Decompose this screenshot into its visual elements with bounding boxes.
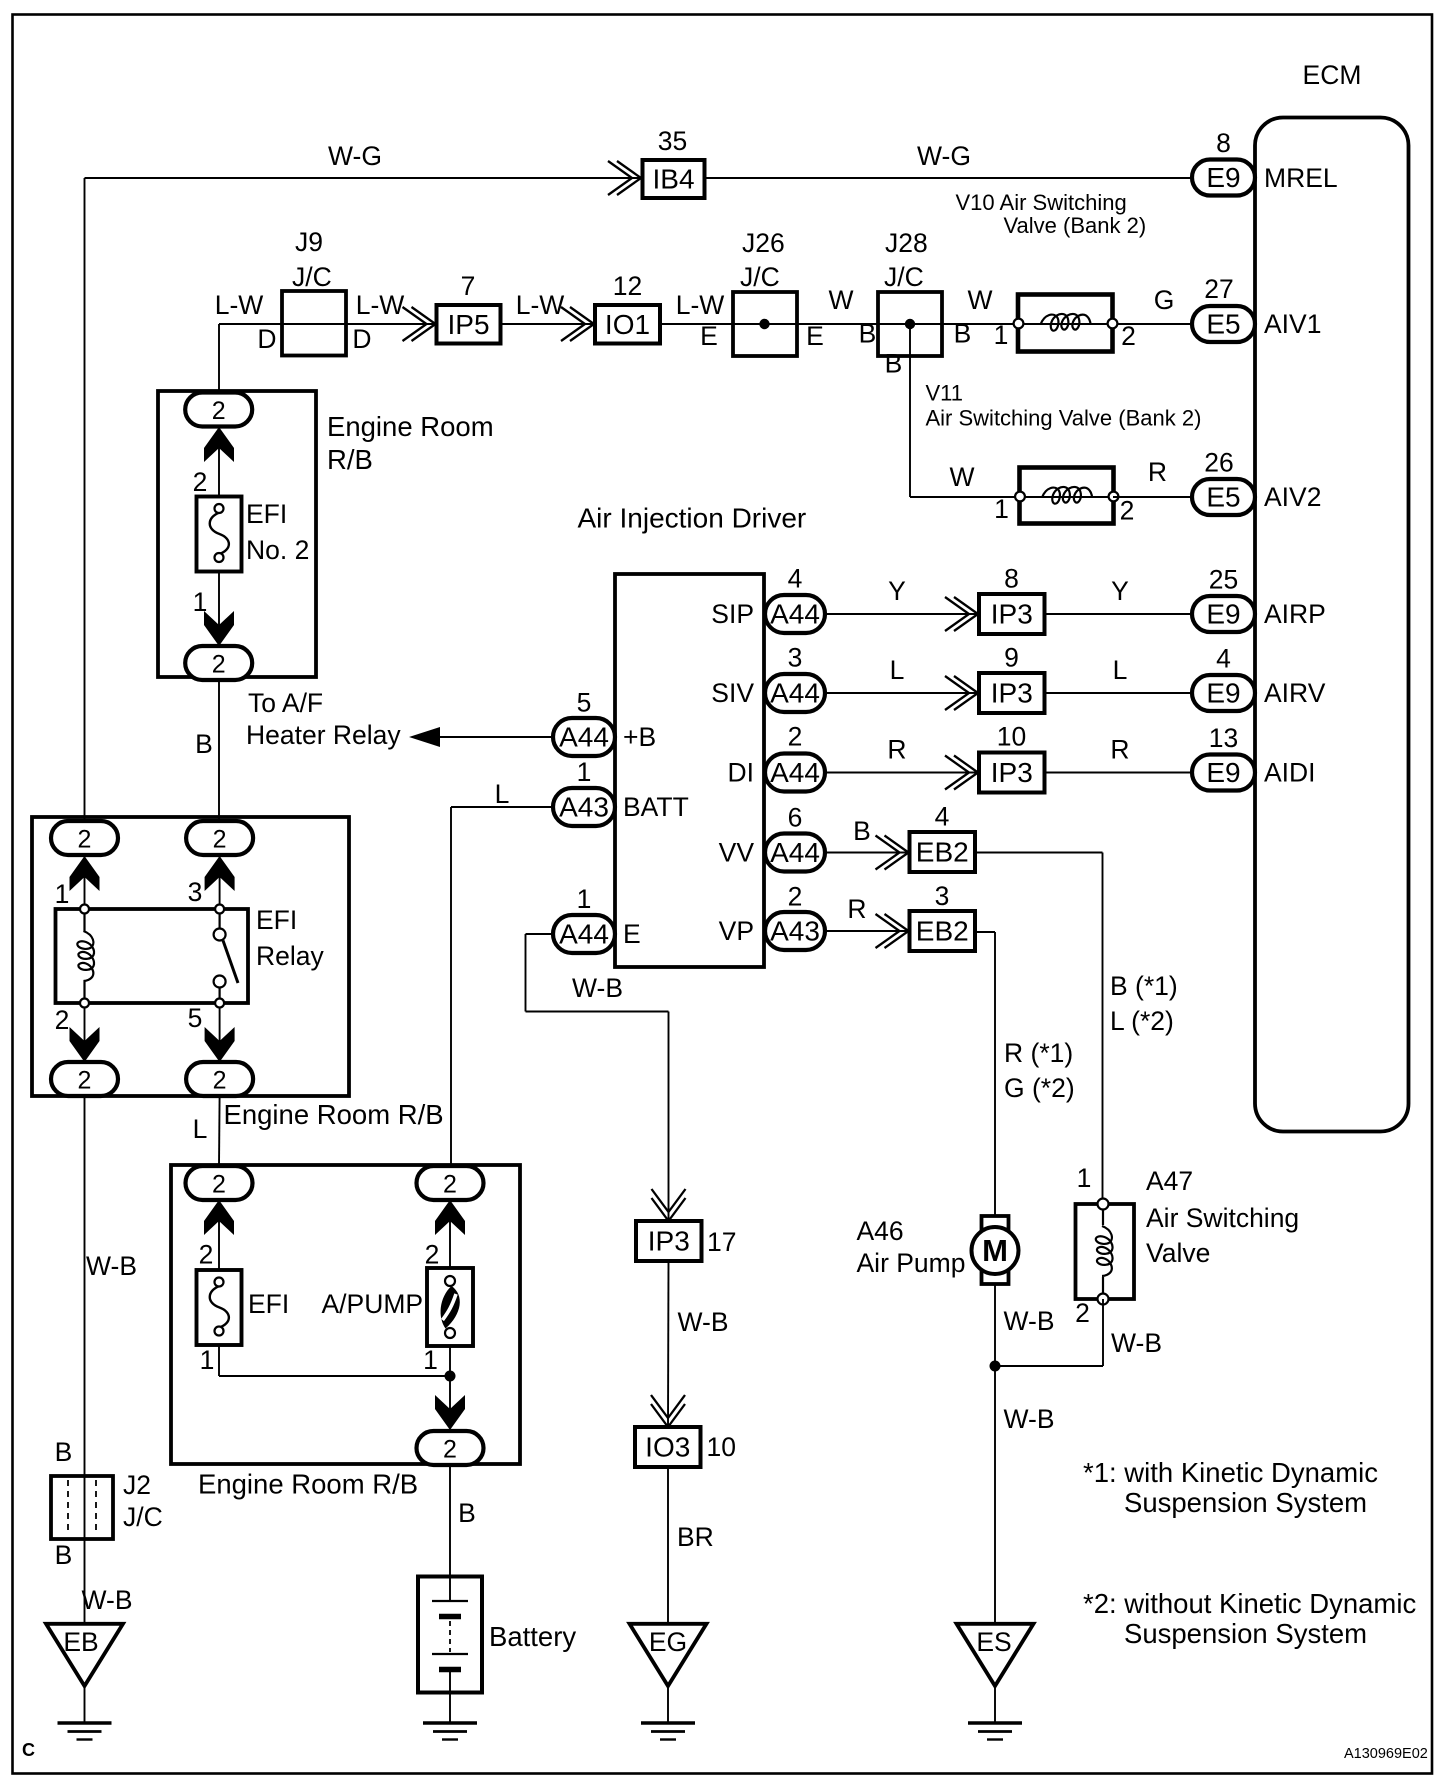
arrow up (relay sw) [205,856,235,891]
svg-text:Suspension System: Suspension System [1124,1618,1367,1649]
svg-text:W-B: W-B [86,1251,137,1281]
svg-text:Air Switching Valve (Bank 2): Air Switching Valve (Bank 2) [926,406,1202,431]
svg-text:7: 7 [461,271,476,301]
svg-text:W-B: W-B [1004,1306,1055,1336]
svg-text:W-G: W-G [328,141,382,171]
arrow down (R/B1) [204,611,234,646]
arrow down (relay coil) [70,1027,100,1062]
wire ES to ground [994,1686,996,1723]
svg-text:E9: E9 [1206,757,1240,788]
connector IP3 (AIRV) [979,673,1045,713]
svg-text:27: 27 [1204,274,1233,304]
wire +B to heater relay [440,736,553,738]
svg-text:2: 2 [78,1067,92,1095]
svg-text:L: L [193,1114,208,1144]
connector A43 (BATT) [553,788,615,826]
wire VP to air pump horizontal [975,931,995,933]
svg-text:5: 5 [188,1003,203,1033]
svg-text:E9: E9 [1206,599,1240,630]
svg-text:J26: J26 [742,228,785,258]
junction J26 J/C box [733,292,797,356]
connector A44 (SIP) [765,595,825,633]
svg-text:E5: E5 [1206,309,1240,340]
svg-text:D: D [352,324,371,354]
connector oval 2 (bottom) [185,646,252,680]
ground (ES) [968,1721,1022,1725]
svg-text:13: 13 [1209,723,1238,753]
solenoid coil V11 (Air Switching Valve Bank 2) [1020,468,1114,524]
wire E to IP3 [668,1012,670,1222]
svg-text:L-W: L-W [516,290,565,320]
wire motor to ES [994,1284,996,1624]
svg-text:17: 17 [707,1227,736,1257]
chevron into IB4 [617,161,641,195]
arrow to A/F heater relay [409,727,440,747]
svg-text:B: B [55,1437,73,1467]
svg-text:W: W [949,462,974,492]
wire R/B1 to EFI relay [218,680,220,822]
svg-text:L: L [1113,655,1128,685]
chevron into IP5 [412,307,436,341]
relay switch [219,909,221,929]
svg-text:Engine Room R/B: Engine Room R/B [198,1469,418,1500]
svg-text:Engine Room: Engine Room [327,411,494,442]
svg-text:B: B [458,1498,476,1528]
svg-text:Valve (Bank 2): Valve (Bank 2) [1004,213,1147,238]
wire DI row [825,772,1192,774]
connector A44 (SIV) [765,674,825,712]
wire SIV row [825,692,1192,694]
svg-text:6: 6 [788,803,803,833]
connector oval 2 (relay coil top) [51,821,118,855]
svg-text:R: R [1110,735,1129,765]
svg-text:A44: A44 [770,837,820,868]
svg-text:26: 26 [1204,448,1233,478]
svg-text:BATT: BATT [623,792,689,822]
EFI relay outer box (Engine Room R/B) [32,817,349,1096]
svg-text:Valve: Valve [1146,1238,1210,1268]
relay pin circles [80,905,89,914]
svg-text:G: G [1154,285,1175,315]
svg-text:A44: A44 [559,919,609,950]
svg-text:8: 8 [1004,564,1019,594]
wire BATT left [451,806,553,808]
wire A47 to junction [995,1365,1103,1367]
chevron into IP3 (SIV) [954,676,978,710]
svg-text:1: 1 [1077,1163,1092,1193]
svg-text:A44: A44 [770,678,820,709]
fuse EFI No. 2 [197,497,242,572]
junction dot (fuse join) [445,1371,456,1382]
svg-text:B: B [859,319,877,349]
svg-text:BR: BR [677,1522,714,1552]
svg-text:No. 2: No. 2 [246,535,309,565]
wire from J28 down [909,324,911,497]
svg-text:Air Injection Driver: Air Injection Driver [578,503,807,534]
svg-text:SIV: SIV [711,678,754,708]
wire relay right internal bottom [219,1000,221,1062]
svg-text:2: 2 [443,1171,457,1199]
svg-text:J28: J28 [885,228,928,258]
wire IO3 to EG [667,1467,669,1624]
svg-text:*2: without Kinetic Dynamic: *2: without Kinetic Dynamic [1083,1588,1416,1619]
wire BATT down [450,807,452,1167]
svg-text:2: 2 [425,1240,440,1270]
svg-text:IP5: IP5 [447,309,489,340]
wire VP row [825,930,910,932]
svg-text:4: 4 [1216,644,1231,674]
arrow up (R/B3 right) [435,1200,465,1235]
wire fuse EFI lower [218,1345,220,1376]
svg-text:A43: A43 [770,916,820,947]
connector IO1 [595,305,660,344]
svg-text:1: 1 [55,879,70,909]
svg-text:C: C [22,1740,35,1760]
wire to V11 [910,496,1019,498]
svg-text:A43: A43 [559,792,609,823]
svg-text:AIDI: AIDI [1264,758,1316,788]
connector A44 (E) [553,915,615,953]
chevron into IP3 (SIP) [954,597,978,631]
svg-text:10: 10 [707,1432,736,1462]
connector IP5 [437,305,501,344]
svg-text:W-G: W-G [917,141,971,171]
svg-text:L-W: L-W [356,290,405,320]
ground (battery) [423,1721,477,1725]
connector IP3 (AIRP) [979,594,1045,634]
svg-text:1: 1 [200,1345,215,1375]
svg-text:Relay: Relay [256,941,325,971]
ground triangle EB [46,1624,123,1686]
arrow down (relay sw) [205,1027,235,1062]
svg-text:3: 3 [935,881,950,911]
connector E5 (AIV2) [1192,479,1255,515]
svg-text:E: E [623,919,641,949]
wire fuse EFI internal [218,1183,220,1270]
solenoid coil V10 (Air Switching Valve Bank 2) [1018,295,1113,352]
fuse EFI [197,1270,242,1345]
svg-text:E9: E9 [1206,162,1240,193]
svg-text:1: 1 [577,884,592,914]
connector EB2 (VP) [910,911,976,951]
wire inside R/B 1 [218,393,220,663]
svg-text:Y: Y [1111,576,1129,606]
svg-text:ES: ES [976,1627,1011,1657]
svg-text:To A/F: To A/F [248,688,323,718]
arrow up (R/B3 left) [204,1200,234,1235]
svg-text:EFI: EFI [246,499,287,529]
connector oval 2 (relay sw top) [186,821,253,855]
wire fuse A/PUMP lower [449,1345,451,1430]
svg-text:E: E [806,321,824,351]
svg-text:L (*2): L (*2) [1110,1006,1174,1036]
connector IP3 (AIDI) [979,753,1045,793]
connector oval 2 (relay sw bottom) [186,1062,253,1096]
connector A44 (VV) [765,834,825,872]
svg-text:2: 2 [213,1067,227,1095]
wire VV row [825,852,910,854]
wire relay left internal top [84,855,86,912]
svg-text:J/C: J/C [292,262,332,292]
connector A44 (DI) [765,754,825,792]
svg-text:EB2: EB2 [916,837,969,868]
connector E9 (AIDI) [1192,755,1255,791]
wire W-G left vertical (down to EFI relay coil) [84,178,86,822]
arrow up (R/B1) [204,427,234,462]
wire EB to ground [84,1686,86,1723]
ground (EB) [58,1721,112,1725]
svg-text:*1: with Kinetic Dynamic: *1: with Kinetic Dynamic [1083,1457,1378,1488]
svg-text:AIV2: AIV2 [1264,482,1321,512]
chevron into IP3 17 [652,1198,686,1221]
ground triangle EG [630,1624,707,1686]
wire battery to ground [449,1670,451,1724]
svg-text:A44: A44 [770,599,820,630]
svg-text:B: B [853,816,871,846]
svg-text:Heater Relay: Heater Relay [246,720,401,750]
connector oval 2 (R/B3 right) [417,1166,484,1200]
wire E right [526,1011,669,1013]
svg-text:E5: E5 [1206,482,1240,513]
connector E5 (AIV1) [1192,306,1255,342]
svg-text:W-B: W-B [1004,1404,1055,1434]
svg-text:J/C: J/C [123,1502,163,1532]
svg-text:E: E [700,321,718,351]
svg-text:B: B [885,349,903,379]
junction J9 J/C box [282,291,346,356]
svg-text:2: 2 [212,397,226,425]
svg-text:B (*1): B (*1) [1110,971,1178,1001]
svg-text:12: 12 [613,271,642,301]
svg-text:9: 9 [1004,643,1019,673]
wire relay left internal bottom [84,1000,86,1062]
svg-text:L-W: L-W [676,290,725,320]
connector E9 (AIRP) [1192,596,1255,632]
svg-text:+B: +B [623,722,656,752]
svg-text:L: L [890,655,905,685]
junction dot (W-B) [990,1361,1001,1372]
chevron into EB2 (VP) [885,914,909,948]
connector oval 2 (R/B3 bottom) [417,1431,484,1465]
wire V11 to ECM [1113,496,1192,498]
svg-text:A44: A44 [559,722,609,753]
wire E left [526,933,554,935]
wire L-W/W row to AIV1 [219,323,1192,325]
svg-text:1: 1 [577,757,592,787]
connector oval 2 (R/B3 left) [186,1166,253,1200]
svg-text:A46: A46 [857,1216,904,1246]
svg-text:2: 2 [1121,321,1136,351]
svg-text:Engine Room R/B: Engine Room R/B [224,1099,444,1130]
ECM U1 box [1255,118,1409,1132]
connector IO3 [635,1427,701,1467]
svg-text:2: 2 [1075,1298,1090,1328]
svg-text:W-B: W-B [1111,1328,1162,1358]
svg-text:B: B [55,1540,73,1570]
svg-text:R: R [1148,457,1167,487]
wire relay sw to R/B 3 [218,1096,221,1166]
svg-text:L: L [495,779,510,809]
connector A43 (VP) [765,912,825,950]
svg-text:2: 2 [212,651,226,679]
svg-text:2: 2 [1120,496,1135,526]
svg-text:W: W [828,285,853,315]
ground triangle ES [957,1624,1034,1686]
chevron into IP3 (DI) [954,756,978,790]
Engine Room R/B box 1 [158,391,316,677]
fuse A/PUMP (medium current) [427,1268,473,1346]
svg-text:B: B [195,729,213,759]
ground (EG) [641,1721,695,1725]
svg-text:B: B [954,319,972,349]
svg-text:J/C: J/C [884,262,924,292]
svg-text:EB2: EB2 [916,916,969,947]
connector E9 (AIRV) [1192,675,1255,711]
svg-text:2: 2 [213,826,227,854]
svg-text:A44: A44 [770,757,820,788]
svg-text:R: R [887,735,906,765]
junction J2 J/C box [51,1476,113,1539]
wire EG to ground [667,1686,669,1723]
svg-text:1: 1 [423,1345,438,1375]
svg-text:A47: A47 [1146,1166,1193,1196]
svg-text:SIP: SIP [711,599,754,629]
svg-text:J2: J2 [123,1470,151,1500]
svg-text:2: 2 [788,722,803,752]
svg-text:J9: J9 [295,227,323,257]
svg-text:MREL: MREL [1264,163,1338,193]
svg-text:EFI: EFI [256,905,297,935]
svg-text:V11: V11 [926,381,964,406]
solenoid A47 air switching valve [1076,1204,1135,1299]
svg-text:EG: EG [649,1627,687,1657]
svg-text:W: W [967,285,992,315]
svg-text:2: 2 [55,1005,70,1035]
svg-text:1: 1 [994,494,1009,524]
wire fuse A/PUMP internal [449,1183,451,1270]
arrow down (R/B3) [435,1395,465,1430]
svg-text:IB4: IB4 [652,164,694,195]
svg-text:W-B: W-B [572,973,623,1003]
wire E down [525,934,527,1012]
relay K1 inner box [56,909,249,1003]
battery plates [432,1600,468,1602]
motor A46 air pump [982,1216,1009,1230]
connector oval 2 (top) [185,393,252,427]
svg-text:2: 2 [78,826,92,854]
svg-text:DI: DI [728,758,755,788]
svg-text:W-B: W-B [82,1585,133,1615]
wire SIP row [825,613,1192,615]
chevron into IO1 [570,307,594,341]
wire drop to Engine Room R/B [218,324,220,393]
svg-text:2: 2 [212,1171,226,1199]
svg-text:A/PUMP: A/PUMP [322,1289,424,1319]
svg-text:EB: EB [63,1627,98,1657]
battery box [418,1577,482,1693]
svg-text:25: 25 [1209,565,1238,595]
svg-text:2: 2 [443,1436,457,1464]
svg-text:W-B: W-B [678,1307,729,1337]
svg-text:V10 Air Switching: V10 Air Switching [956,190,1127,215]
connector IB4 [643,160,705,198]
chevron into IO3 [651,1404,685,1427]
connector EB2 (VV) [910,832,976,872]
svg-text:5: 5 [577,688,592,718]
svg-text:R (*1): R (*1) [1004,1038,1073,1068]
connector E9 (MREL) [1192,160,1255,196]
svg-text:2: 2 [193,467,208,497]
wire VV to A47 horizontal [975,852,1103,854]
Air Injection Driver U2 box [615,574,764,967]
svg-text:VV: VV [719,838,755,868]
wire VP to air pump vertical [994,932,996,1216]
svg-text:ECM: ECM [1303,60,1362,90]
svg-text:1: 1 [994,320,1009,350]
svg-text:AIRV: AIRV [1264,678,1326,708]
svg-text:4: 4 [788,564,803,594]
wire VV to A47 vertical [1102,853,1104,1205]
relay coil [77,931,94,981]
svg-text:R: R [847,894,866,924]
wire relay coil to J2/EB [84,1096,86,1623]
arrow up (relay coil) [70,856,100,891]
svg-text:35: 35 [658,126,687,156]
svg-text:Air Pump: Air Pump [857,1248,966,1278]
svg-text:VP: VP [719,916,754,946]
svg-text:AIRP: AIRP [1264,599,1326,629]
node dot in J28 [905,319,915,329]
svg-text:IO1: IO1 [605,309,650,340]
svg-text:IP3: IP3 [648,1226,690,1257]
svg-text:G (*2): G (*2) [1004,1073,1075,1103]
connector IP3 (17) [636,1221,702,1261]
connector A44 (+B) [553,718,615,756]
svg-text:E9: E9 [1206,678,1240,709]
chevron into EB2 (VV) [885,836,909,870]
svg-text:R/B: R/B [327,444,373,475]
svg-text:EFI: EFI [248,1289,289,1319]
svg-text:Air Switching: Air Switching [1146,1203,1299,1233]
svg-text:A130969E02: A130969E02 [1344,1746,1428,1762]
svg-text:3: 3 [188,877,203,907]
svg-text:IP3: IP3 [991,678,1033,709]
svg-text:2: 2 [788,882,803,912]
svg-text:M: M [982,1233,1008,1268]
svg-text:3: 3 [788,643,803,673]
svg-text:Suspension System: Suspension System [1124,1487,1367,1518]
svg-text:10: 10 [997,722,1026,752]
wire A47 down [1102,1299,1104,1366]
wire relay right internal top [219,855,221,912]
svg-text:Y: Y [888,576,906,606]
svg-text:IP3: IP3 [991,599,1033,630]
wire IP3 to IO3 [667,1261,670,1427]
svg-text:4: 4 [935,802,950,832]
node dot in J26 [759,319,769,329]
svg-text:L-W: L-W [215,290,264,320]
svg-text:8: 8 [1216,128,1231,158]
connector oval 2 (relay coil bottom) [51,1062,118,1096]
svg-text:2: 2 [199,1240,214,1270]
wire W-G horizontal (corner to ECM) [85,177,1193,179]
svg-text:IP3: IP3 [991,757,1033,788]
svg-text:J/C: J/C [740,262,780,292]
svg-text:IO3: IO3 [645,1432,690,1463]
wire to battery [449,1465,451,1601]
Engine Room R/B box 3 [171,1165,520,1464]
junction J28 J/C box [878,292,942,356]
